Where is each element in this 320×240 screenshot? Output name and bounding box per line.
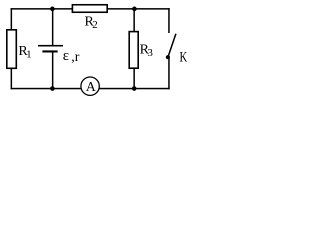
wire left vertical xyxy=(11,8,13,89)
wire R3 branch lower xyxy=(133,68,135,89)
battery E,r xyxy=(38,45,80,65)
svg-text:K: K xyxy=(180,49,188,65)
svg-text:R2: R2 xyxy=(85,15,98,31)
node junction top R3 xyxy=(132,7,137,12)
node junction bottom R3 xyxy=(132,86,137,91)
wire bottom xyxy=(11,88,170,90)
wire battery branch lower xyxy=(52,52,54,89)
switch K xyxy=(166,34,188,66)
svg-text:R3: R3 xyxy=(140,43,154,60)
svg-text:R1: R1 xyxy=(18,44,31,60)
resistor R3 xyxy=(129,32,153,69)
wire top xyxy=(11,8,170,10)
ammeter A xyxy=(81,77,99,95)
resistor R1 xyxy=(7,30,32,69)
svg-text:ε: ε xyxy=(63,48,69,64)
resistor R2 xyxy=(72,5,107,31)
node junction top battery xyxy=(50,7,55,12)
svg-text:,r: ,r xyxy=(71,50,80,65)
wire right vertical lower xyxy=(168,58,170,90)
wire battery branch upper xyxy=(52,9,54,46)
svg-text:A: A xyxy=(86,80,97,95)
node junction bottom battery xyxy=(50,86,55,91)
wire R3 branch upper xyxy=(133,9,135,32)
wire right vertical upper xyxy=(168,8,170,33)
